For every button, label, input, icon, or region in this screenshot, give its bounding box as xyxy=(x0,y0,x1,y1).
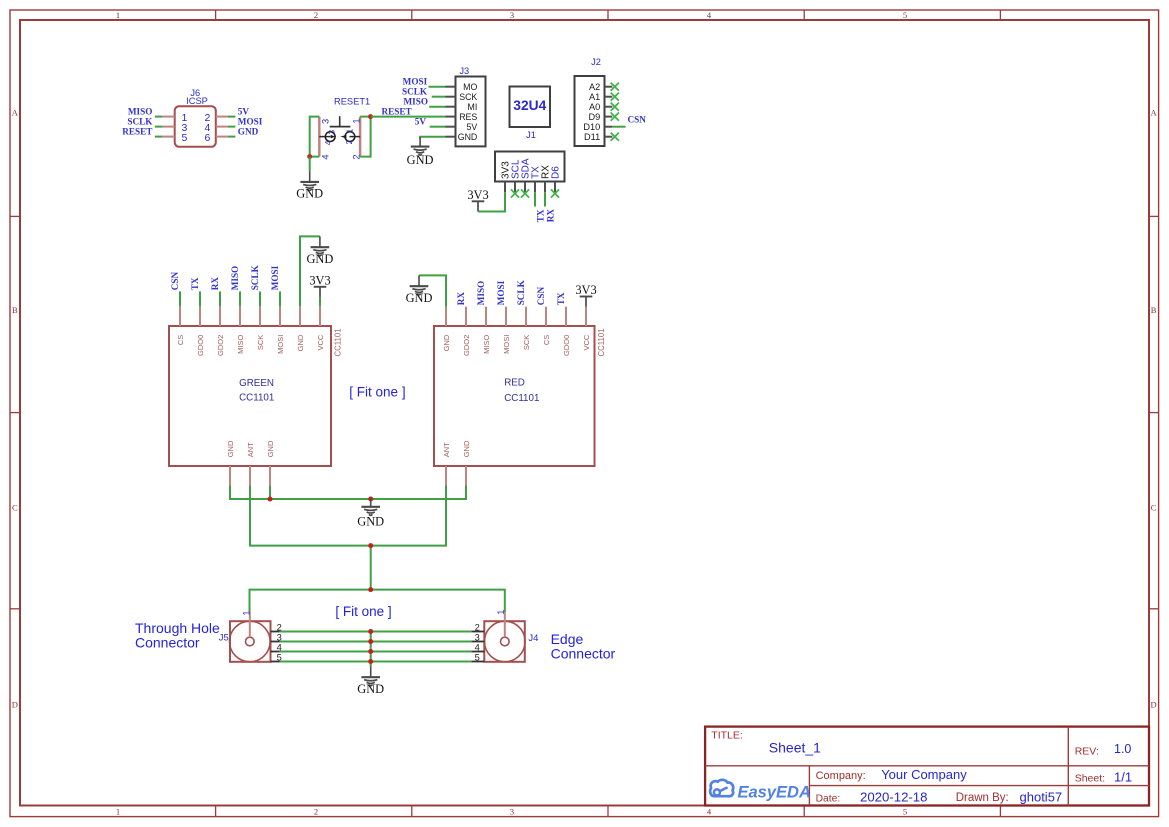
wire RX xyxy=(544,192,546,206)
wire xyxy=(420,137,445,139)
junction xyxy=(368,639,373,644)
junction xyxy=(368,543,373,548)
wire xyxy=(179,291,181,306)
wire xyxy=(429,86,446,88)
svg-text:4: 4 xyxy=(320,154,330,159)
svg-text:D: D xyxy=(1151,700,1157,710)
svg-text:CC1101: CC1101 xyxy=(504,393,539,404)
svg-text:Your Company: Your Company xyxy=(881,767,967,782)
wire xyxy=(419,275,446,306)
svg-text:5: 5 xyxy=(182,132,188,144)
junction xyxy=(307,154,312,159)
svg-text:J5: J5 xyxy=(219,632,229,643)
svg-text:VCC: VCC xyxy=(582,334,591,350)
module RED CC1101 xyxy=(434,307,606,486)
wire xyxy=(279,291,281,306)
svg-text:4: 4 xyxy=(323,140,333,145)
svg-text:2: 2 xyxy=(314,10,318,20)
svg-text:D9: D9 xyxy=(588,112,600,122)
wire xyxy=(269,485,271,499)
wire xyxy=(155,136,163,138)
svg-text:RX: RX xyxy=(456,292,466,306)
wire xyxy=(319,297,321,306)
junction xyxy=(368,587,373,592)
svg-text:CSN: CSN xyxy=(170,272,180,291)
svg-text:B: B xyxy=(1151,305,1157,315)
svg-text:GDO0: GDO0 xyxy=(562,335,571,356)
svg-text:GND: GND xyxy=(238,127,259,137)
svg-text:4: 4 xyxy=(475,642,480,652)
ground xyxy=(296,171,323,201)
svg-text:RX: RX xyxy=(546,209,556,223)
svg-text:1: 1 xyxy=(344,128,354,133)
svg-text:GND: GND xyxy=(296,187,323,201)
svg-text:J3: J3 xyxy=(459,66,469,76)
svg-text:J4: J4 xyxy=(528,633,538,644)
svg-text:J1: J1 xyxy=(526,130,536,140)
svg-text:D6: D6 xyxy=(551,166,562,179)
wire xyxy=(228,116,236,118)
svg-text:GND: GND xyxy=(296,334,305,351)
ground xyxy=(357,499,384,529)
wire xyxy=(228,126,236,128)
ground xyxy=(306,236,333,266)
logo EasyEDA xyxy=(710,780,811,802)
no-connect X xyxy=(521,189,529,197)
svg-text:RESET: RESET xyxy=(122,127,152,137)
svg-text:SCLK: SCLK xyxy=(402,87,428,97)
svg-text:2: 2 xyxy=(344,139,354,144)
wire xyxy=(360,117,371,157)
svg-text:CSN: CSN xyxy=(628,115,647,125)
wire RESET xyxy=(371,116,446,118)
svg-text:SCLK: SCLK xyxy=(127,117,153,127)
power 3V3 xyxy=(467,188,488,212)
svg-text:SCK: SCK xyxy=(522,335,531,350)
svg-text:5V: 5V xyxy=(467,122,478,132)
svg-text:A0: A0 xyxy=(589,102,600,112)
no-connect X xyxy=(611,93,619,101)
svg-text:GND: GND xyxy=(226,440,235,457)
svg-text:D10: D10 xyxy=(583,122,600,132)
svg-text:MOSI: MOSI xyxy=(403,77,428,87)
wire GND bus xyxy=(230,485,466,499)
svg-text:Drawn By:: Drawn By: xyxy=(956,792,1009,804)
svg-text:1: 1 xyxy=(116,807,120,817)
pushbutton RESET1 xyxy=(319,97,370,160)
svg-text:RES: RES xyxy=(459,112,477,122)
svg-text:C: C xyxy=(12,503,18,513)
junction xyxy=(268,497,273,502)
svg-text:GDO2: GDO2 xyxy=(216,335,225,356)
svg-text:MI: MI xyxy=(468,102,478,112)
svg-text:J2: J2 xyxy=(591,57,601,67)
no-connect X xyxy=(611,113,619,121)
svg-text:2: 2 xyxy=(475,622,480,632)
svg-text:1.0: 1.0 xyxy=(1114,742,1131,756)
svg-text:1/1: 1/1 xyxy=(1114,770,1132,785)
svg-text:2: 2 xyxy=(351,154,361,159)
ground xyxy=(407,137,434,167)
svg-text:GND: GND xyxy=(407,153,434,167)
svg-text:GND: GND xyxy=(458,132,478,142)
svg-text:EasyEDA: EasyEDA xyxy=(738,784,811,802)
svg-text:3V3: 3V3 xyxy=(309,273,330,287)
svg-text:A1: A1 xyxy=(589,92,600,102)
wire xyxy=(370,632,372,667)
svg-text:D: D xyxy=(12,700,18,710)
svg-text:TX: TX xyxy=(556,292,566,305)
svg-text:REV:: REV: xyxy=(1075,746,1099,758)
svg-text:RESET1: RESET1 xyxy=(334,97,370,107)
svg-text:MO: MO xyxy=(463,82,477,92)
wire xyxy=(199,291,201,306)
no-connect X xyxy=(611,133,619,141)
svg-text:GND: GND xyxy=(406,291,433,305)
svg-text:A: A xyxy=(12,108,19,118)
svg-text:MOSI: MOSI xyxy=(496,280,506,305)
junction xyxy=(368,114,373,119)
connector J4 xyxy=(471,610,538,663)
wire xyxy=(429,106,445,108)
power 3V3 xyxy=(309,273,330,297)
svg-text:CSN: CSN xyxy=(536,287,546,306)
svg-text:GND: GND xyxy=(462,440,471,457)
connector J5 xyxy=(219,610,282,662)
no-connect X xyxy=(551,189,559,197)
svg-text:3: 3 xyxy=(510,10,514,20)
svg-text:3: 3 xyxy=(320,119,330,124)
svg-text:ANT: ANT xyxy=(246,442,255,457)
svg-text:Connector: Connector xyxy=(551,645,616,661)
svg-text:B: B xyxy=(12,305,18,315)
svg-text:CS: CS xyxy=(176,335,185,345)
svg-text:RX: RX xyxy=(210,277,220,291)
svg-text:2: 2 xyxy=(314,807,318,817)
wire xyxy=(250,590,505,613)
wire xyxy=(280,661,472,663)
svg-text:A: A xyxy=(1151,108,1158,118)
svg-text:GND: GND xyxy=(442,334,451,351)
wire ANT bus xyxy=(250,485,446,545)
svg-text:CS: CS xyxy=(542,335,551,345)
svg-text:5V: 5V xyxy=(238,107,250,117)
svg-text:1: 1 xyxy=(351,118,361,123)
svg-text:1: 1 xyxy=(241,610,251,615)
wire xyxy=(280,631,472,633)
svg-text:GND: GND xyxy=(266,440,275,457)
wire xyxy=(239,291,241,306)
svg-text:Date:: Date: xyxy=(816,793,841,804)
svg-text:ICSP: ICSP xyxy=(186,96,208,106)
svg-text:MOSI: MOSI xyxy=(502,335,511,354)
svg-text:ANT: ANT xyxy=(442,442,451,457)
wire TX xyxy=(534,192,536,206)
svg-text:6: 6 xyxy=(204,132,210,144)
svg-text:1: 1 xyxy=(496,610,506,615)
svg-text:MISO: MISO xyxy=(476,281,486,306)
wire xyxy=(309,157,311,172)
svg-text:TITLE:: TITLE: xyxy=(711,729,743,741)
ground xyxy=(357,666,384,696)
svg-text:ghoti57: ghoti57 xyxy=(1020,789,1063,804)
module GREEN CC1101 xyxy=(169,306,343,485)
svg-text:2020-12-18: 2020-12-18 xyxy=(860,789,927,804)
svg-text:CC1101: CC1101 xyxy=(334,328,343,356)
connector J2 xyxy=(575,57,613,146)
wire xyxy=(228,136,236,138)
wire xyxy=(280,651,472,653)
wire xyxy=(432,96,446,98)
svg-text:5: 5 xyxy=(903,807,907,817)
svg-text:1: 1 xyxy=(116,10,120,20)
wire CSN xyxy=(612,126,625,128)
wire xyxy=(155,116,163,118)
wire xyxy=(300,236,320,306)
svg-text:CC1101: CC1101 xyxy=(239,392,274,403)
svg-text:A2: A2 xyxy=(589,82,600,92)
svg-text:GND: GND xyxy=(357,682,384,696)
title block xyxy=(705,727,1149,806)
svg-text:RESET: RESET xyxy=(382,106,412,116)
svg-text:[ Fit one ]: [ Fit one ] xyxy=(335,604,391,619)
svg-text:MOSI: MOSI xyxy=(270,265,280,290)
svg-text:3: 3 xyxy=(327,130,337,135)
wire xyxy=(478,192,505,211)
svg-text:GDO2: GDO2 xyxy=(462,335,471,356)
svg-text:TX: TX xyxy=(190,277,200,290)
svg-text:SCK: SCK xyxy=(459,92,477,102)
power 3V3 xyxy=(575,283,596,307)
svg-text:D11: D11 xyxy=(584,132,600,142)
svg-text:5V: 5V xyxy=(415,117,427,127)
junction xyxy=(368,497,373,502)
svg-text:MOSI: MOSI xyxy=(276,335,285,354)
svg-text:MOSI: MOSI xyxy=(238,117,263,127)
connector J3 xyxy=(446,66,486,146)
wire xyxy=(259,291,261,306)
no-connect X xyxy=(511,189,519,197)
junction xyxy=(368,649,373,654)
junction xyxy=(368,629,373,634)
svg-text:RED: RED xyxy=(504,378,525,389)
svg-text:Sheet:: Sheet: xyxy=(1075,772,1105,784)
junction xyxy=(368,659,373,664)
ground xyxy=(406,275,433,305)
svg-text:Connector: Connector xyxy=(135,634,200,650)
svg-text:[ Fit one ]: [ Fit one ] xyxy=(349,385,405,400)
svg-text:3: 3 xyxy=(475,632,480,642)
svg-text:5: 5 xyxy=(475,652,480,662)
svg-text:5: 5 xyxy=(903,10,907,20)
svg-text:Sheet_1: Sheet_1 xyxy=(769,739,821,755)
svg-text:SCLK: SCLK xyxy=(250,264,260,290)
svg-text:3V3: 3V3 xyxy=(467,188,488,202)
svg-text:MISO: MISO xyxy=(403,97,428,107)
svg-text:TX: TX xyxy=(536,209,546,222)
connector J7 header xyxy=(495,152,565,193)
svg-text:32U4: 32U4 xyxy=(513,98,546,113)
svg-text:GND: GND xyxy=(306,252,333,266)
svg-text:GREEN: GREEN xyxy=(239,378,274,389)
module J1 32U4 xyxy=(510,87,551,141)
wire xyxy=(310,117,320,157)
wire xyxy=(280,641,472,643)
svg-text:MISO: MISO xyxy=(230,266,240,291)
svg-text:3V3: 3V3 xyxy=(575,283,596,297)
no-connect X xyxy=(611,103,619,111)
wire xyxy=(370,546,372,590)
svg-text:SCK: SCK xyxy=(256,335,265,350)
svg-text:MISO: MISO xyxy=(236,335,245,354)
wire xyxy=(219,291,221,306)
svg-text:Company:: Company: xyxy=(816,770,866,782)
no-connect X xyxy=(611,83,619,91)
svg-text:GND: GND xyxy=(357,515,384,529)
svg-text:CC1101: CC1101 xyxy=(597,328,606,356)
svg-text:VCC: VCC xyxy=(316,334,325,350)
svg-text:GDO0: GDO0 xyxy=(196,335,205,356)
svg-text:SCLK: SCLK xyxy=(516,279,526,305)
svg-text:C: C xyxy=(1151,503,1157,513)
svg-text:MISO: MISO xyxy=(128,107,153,117)
wire xyxy=(430,126,446,128)
wire xyxy=(155,126,163,128)
connector J6 ICSP xyxy=(162,88,228,147)
svg-text:MISO: MISO xyxy=(482,335,491,354)
svg-text:3: 3 xyxy=(510,807,514,817)
